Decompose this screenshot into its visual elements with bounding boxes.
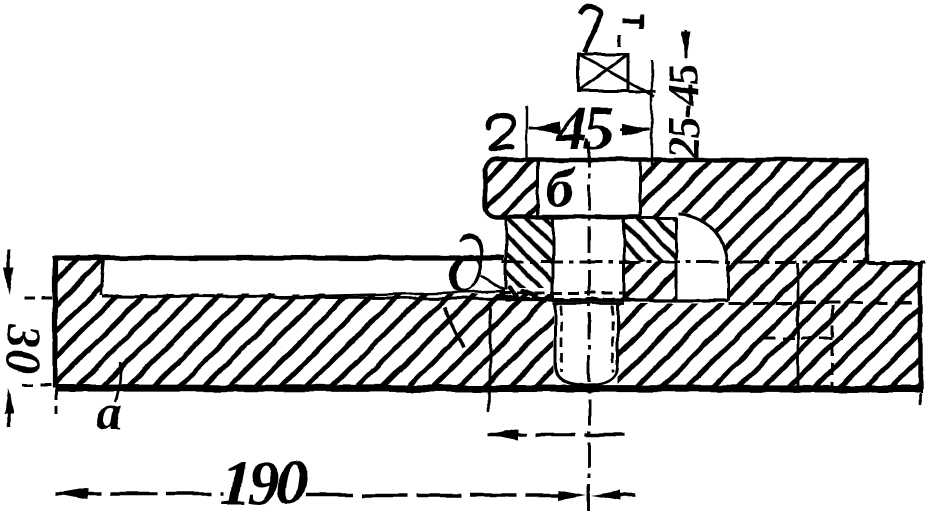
mid dimension line with left arrow <box>487 433 634 437</box>
junction vertical at clamp left <box>505 217 508 290</box>
small hatched area under right clamp column <box>624 262 676 301</box>
quarter recess left edge <box>675 218 678 300</box>
bottom edge thick <box>55 388 922 389</box>
label г <box>489 115 513 150</box>
bolt hole top edge <box>553 302 624 305</box>
bay bottom line <box>506 298 728 301</box>
svg-text:190: 190 <box>220 447 307 518</box>
bolt head window left edge <box>537 160 540 217</box>
bolt centerline vertical dash-dot <box>588 141 591 516</box>
vertical dim down arrow <box>681 32 691 60</box>
thread hidden line left <box>560 305 563 372</box>
hidden thread dashes at joint <box>500 292 632 295</box>
bolt shank right / C2 left edge <box>623 218 626 301</box>
dim 190 line right part <box>306 493 578 497</box>
recess left wall <box>101 258 104 295</box>
C2 top edge <box>624 217 676 220</box>
dim 45 right arrow <box>622 124 652 136</box>
dim 190 left arrow <box>56 488 88 500</box>
dim 45 left arrow <box>529 122 560 134</box>
callout box with cross <box>578 54 628 91</box>
block right edge <box>865 159 869 263</box>
callout box bottom extension <box>628 91 656 94</box>
quarter recess right edge <box>727 262 730 300</box>
dim 30 extension dashes lower <box>22 384 52 387</box>
junction ink blob marks <box>500 288 546 301</box>
dim 190 right arrow at centerline <box>558 490 587 500</box>
right edge extension tick <box>919 393 922 405</box>
thread hidden line right <box>612 305 615 372</box>
label a leader <box>115 363 120 402</box>
dim 45 right extension line <box>651 60 653 165</box>
stray counter-diagonal mark <box>444 307 464 348</box>
lower right plate right edge <box>918 263 922 390</box>
dim 45 left extension line <box>526 107 528 160</box>
top strip hatched left part <box>485 160 538 217</box>
clamp column right cross-hatched C2 <box>624 218 676 262</box>
lower plate right body hatched <box>618 303 922 388</box>
hidden slot vertical dashes <box>831 306 834 386</box>
lower plate left body hatched <box>55 294 553 388</box>
top strip outline <box>485 160 868 217</box>
clamp C1 right edge / bolt shank left <box>552 217 555 301</box>
bolt head window right edge <box>639 160 642 218</box>
hidden edge vertical in left plate <box>489 302 492 388</box>
horizontal dash-dot datum line <box>502 261 930 264</box>
outline left plate <box>55 258 504 388</box>
dim 30 upper line with down arrow <box>7 250 10 288</box>
surface callout numeral 7 <box>580 7 602 52</box>
upper block hatched <box>640 159 867 262</box>
hidden slot vertical solid <box>797 263 800 388</box>
callout box diagonal 2 <box>578 54 628 91</box>
callout box diagonal 1 <box>578 54 655 97</box>
label в leader <box>480 276 505 290</box>
clamp column left cross-hatched C1 <box>506 217 553 288</box>
svg-text:45: 45 <box>555 95 613 163</box>
svg-text:30: 30 <box>0 323 49 376</box>
extra arrow from right <box>592 490 620 500</box>
small mark near top <box>622 14 641 28</box>
shim sliver line <box>277 291 505 297</box>
svg-text:б: б <box>546 158 576 220</box>
dim 30 extension dashes upper <box>24 297 52 300</box>
quarter recess arc <box>678 214 727 263</box>
hidden joint dashes right <box>728 302 922 305</box>
recess floor line <box>102 296 505 299</box>
lower plate left rim hatched <box>55 258 104 296</box>
lower right plate top edge <box>867 262 920 265</box>
quarter recess white in block <box>676 212 728 264</box>
dim 190 line left part <box>56 492 224 496</box>
hidden slot horizontal dashes <box>763 337 842 340</box>
small dash <box>619 35 622 46</box>
dim 30 lower line with up arrow <box>7 394 10 428</box>
svg-text:∂: ∂ <box>447 221 487 309</box>
svg-text:25-45: 25-45 <box>659 65 708 160</box>
lower plate right mid band hatched <box>728 262 920 304</box>
bolt hole outline with round bottom <box>555 303 618 385</box>
dim 190 left extension dashes <box>55 390 58 414</box>
extension tick for mid dim <box>488 392 491 412</box>
